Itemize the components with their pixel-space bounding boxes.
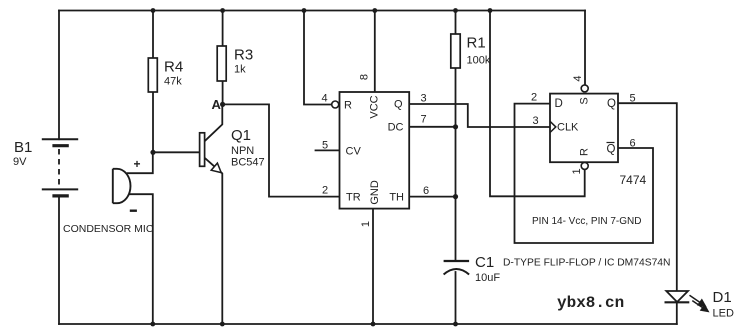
- wire node A to 555 TR pin: [223, 104, 340, 196]
- flip-flop PRE bubble: [581, 85, 588, 92]
- wire Q1 collector lead: [205, 104, 223, 141]
- svg-text:9V: 9V: [13, 156, 27, 168]
- svg-text:R1: R1: [467, 35, 486, 52]
- resistor R4: [148, 58, 157, 92]
- svg-text:R: R: [579, 148, 591, 156]
- wire flip-flop Qbar to D feedback: [515, 104, 654, 243]
- wire R1 top lead: [455, 11, 457, 35]
- wire R1 bottom lead through DC and TH to C1: [455, 68, 457, 261]
- svg-text:D: D: [555, 98, 563, 110]
- wire LED cathode to ground rail: [676, 302, 678, 324]
- transistor Q1: [200, 133, 222, 173]
- resistor R3: [217, 46, 226, 81]
- svg-text:CONDENSOR MIC: CONDENSOR MIC: [63, 223, 154, 235]
- svg-text:2: 2: [322, 185, 328, 197]
- wire R4 bottom lead to node base: [152, 92, 154, 152]
- svg-text:LED: LED: [713, 308, 734, 320]
- wire 555 VCC pin 8: [374, 11, 376, 93]
- wire R3 bottom lead to node A: [222, 81, 224, 104]
- svg-text:Q: Q: [607, 98, 616, 110]
- svg-text:6: 6: [630, 138, 636, 150]
- svg-text:1: 1: [571, 168, 583, 174]
- svg-text:Q: Q: [607, 144, 616, 156]
- svg-text:Q1: Q1: [231, 127, 251, 144]
- 555 reset bubble: [332, 101, 339, 108]
- wire Q1 base: [153, 151, 200, 153]
- svg-text:CV: CV: [346, 146, 362, 158]
- wire flip-flop Q pin 5 to LED: [618, 103, 677, 291]
- svg-text:B1: B1: [14, 139, 32, 156]
- node gnd-C1: [453, 322, 458, 327]
- node rail-7474 clr: [488, 8, 493, 13]
- node rail-R4: [151, 8, 156, 13]
- wire 555 DC pin 7: [409, 126, 455, 128]
- wire rail to flip-flop CLR pin 1: [490, 11, 585, 197]
- svg-text:1: 1: [360, 221, 372, 227]
- svg-text:+: +: [134, 157, 141, 171]
- wire 555 Q pin 3 to flip-flop CLK: [409, 104, 550, 127]
- wire top rail VCC: [59, 10, 585, 12]
- svg-text:2: 2: [531, 92, 537, 104]
- node R1-DC junction: [453, 124, 458, 129]
- condenser microphone MIC: [113, 169, 131, 203]
- node rail-R3: [220, 8, 225, 13]
- wire R3 top lead: [222, 11, 224, 47]
- wire bottom rail GND: [59, 323, 677, 325]
- svg-text:TH: TH: [389, 192, 404, 204]
- wire 555 GND pin 1: [372, 209, 374, 324]
- wire C1 bottom lead: [455, 272, 457, 324]
- node gnd-555: [371, 322, 376, 327]
- wire mic plus lead: [128, 152, 153, 173]
- wire rail to flip-flop PRE pin 4: [584, 11, 586, 86]
- svg-text:D-TYPE FLIP-FLOP / IC DM74S74: D-TYPE FLIP-FLOP / IC DM74S74N: [503, 258, 670, 269]
- svg-text:R4: R4: [164, 59, 183, 76]
- wire 555 TH pin 6: [409, 196, 455, 198]
- node base junction: [150, 150, 155, 155]
- svg-text:R: R: [344, 100, 352, 112]
- resistor R1: [451, 34, 460, 68]
- node rail-555 vcc: [372, 8, 377, 13]
- svg-text:Q: Q: [394, 99, 403, 111]
- mic minus sign: [130, 209, 137, 211]
- svg-text:R3: R3: [234, 47, 253, 64]
- svg-text:TR: TR: [346, 192, 361, 204]
- svg-text:S: S: [579, 97, 591, 104]
- flip-flop clock wedge: [550, 121, 556, 132]
- node gnd-emitter: [220, 322, 225, 327]
- svg-text:5: 5: [630, 93, 636, 105]
- svg-text:A: A: [212, 97, 222, 112]
- node R1-TH junction: [453, 194, 458, 199]
- svg-text:7: 7: [421, 114, 427, 126]
- svg-text:VCC: VCC: [369, 95, 381, 118]
- battery B1: [42, 139, 78, 196]
- svg-text:47k: 47k: [164, 76, 182, 88]
- node rail-555 reset: [302, 8, 307, 13]
- svg-text:10uF: 10uF: [475, 272, 500, 284]
- flip-flop U2 7474 body: [550, 94, 618, 163]
- svg-text:100k: 100k: [467, 55, 491, 67]
- svg-text:BC547: BC547: [231, 157, 265, 169]
- svg-text:4: 4: [572, 75, 584, 81]
- wire mic minus lead to ground rail: [128, 194, 153, 324]
- flip-flop CLR bubble: [581, 162, 588, 169]
- wire battery bottom lead: [58, 196, 60, 324]
- svg-text:CLK: CLK: [557, 122, 579, 134]
- svg-text:C1: C1: [475, 254, 494, 271]
- node rail-R1: [453, 8, 458, 13]
- svg-text:DC: DC: [388, 122, 404, 134]
- svg-text:PIN 14- Vcc, PIN 7-GND: PIN 14- Vcc, PIN 7-GND: [532, 216, 641, 227]
- wire battery top lead: [58, 11, 60, 140]
- 7474 pin label Qbar: [607, 143, 616, 156]
- node A junction: [220, 102, 225, 107]
- svg-text:8: 8: [359, 74, 371, 80]
- svg-text:3: 3: [533, 115, 539, 127]
- svg-text:3: 3: [421, 93, 427, 105]
- svg-text:ybx8.cn: ybx8.cn: [557, 294, 624, 312]
- node gnd-mic: [150, 322, 155, 327]
- svg-text:D1: D1: [713, 289, 732, 306]
- svg-text:1k: 1k: [234, 64, 246, 76]
- wire 555 CV pin 5 stub: [316, 149, 340, 151]
- LED D1: [665, 291, 709, 311]
- svg-text:6: 6: [423, 185, 429, 197]
- op-amp U1 555 timer body: [340, 92, 410, 209]
- wire 555 reset pin 4 from rail: [304, 11, 332, 105]
- capacitor C1: [444, 261, 470, 275]
- svg-text:NPN: NPN: [231, 145, 254, 157]
- svg-text:7474: 7474: [620, 173, 647, 187]
- wire R4 top lead: [152, 11, 154, 59]
- svg-text:GND: GND: [369, 180, 381, 205]
- svg-text:4: 4: [322, 93, 328, 105]
- svg-text:5: 5: [322, 140, 328, 152]
- wire Q1 emitter lead to ground rail: [205, 158, 223, 324]
